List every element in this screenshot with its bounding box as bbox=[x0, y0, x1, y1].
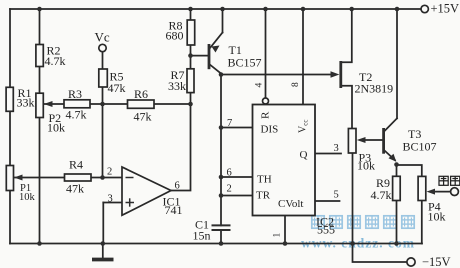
svg-text:10k: 10k bbox=[19, 192, 36, 203]
svg-text:10k: 10k bbox=[357, 159, 375, 173]
svg-text:741: 741 bbox=[165, 203, 183, 217]
svg-text:4.7k: 4.7k bbox=[45, 54, 66, 68]
svg-text:BC107: BC107 bbox=[403, 140, 437, 154]
svg-text:680: 680 bbox=[166, 29, 184, 43]
svg-text:5: 5 bbox=[334, 190, 339, 201]
svg-text:4.7k: 4.7k bbox=[66, 108, 87, 122]
svg-text:Vc: Vc bbox=[95, 30, 110, 45]
svg-text:DIS: DIS bbox=[261, 124, 279, 136]
svg-text:TR: TR bbox=[256, 190, 271, 202]
svg-text:4: 4 bbox=[255, 83, 265, 88]
svg-text:8: 8 bbox=[291, 82, 301, 87]
svg-text:2: 2 bbox=[227, 184, 232, 195]
svg-text:R3: R3 bbox=[68, 87, 82, 101]
svg-text:2N3819: 2N3819 bbox=[355, 82, 394, 96]
svg-text:+15V: +15V bbox=[431, 2, 460, 16]
svg-text:Q: Q bbox=[300, 149, 308, 161]
svg-text:47k: 47k bbox=[66, 182, 84, 196]
svg-text:CVolt: CVolt bbox=[278, 198, 303, 210]
svg-text:7: 7 bbox=[227, 118, 232, 129]
svg-text:10k: 10k bbox=[47, 121, 65, 135]
svg-text:TH: TH bbox=[257, 174, 272, 186]
svg-text:3: 3 bbox=[108, 194, 113, 205]
svg-text:555: 555 bbox=[317, 223, 335, 237]
svg-text:2: 2 bbox=[107, 167, 112, 178]
svg-text:−15V: −15V bbox=[422, 255, 451, 268]
svg-text:47k: 47k bbox=[108, 81, 126, 95]
svg-text:1: 1 bbox=[273, 233, 283, 238]
svg-text:15n: 15n bbox=[193, 229, 211, 243]
svg-text:10k: 10k bbox=[428, 210, 446, 224]
svg-text:33k: 33k bbox=[17, 96, 35, 110]
svg-text:6: 6 bbox=[227, 168, 232, 179]
svg-text:R4: R4 bbox=[69, 158, 83, 172]
svg-text:R: R bbox=[260, 111, 272, 119]
svg-text:3: 3 bbox=[334, 143, 339, 154]
svg-text:6: 6 bbox=[175, 181, 180, 192]
svg-text:4.7k: 4.7k bbox=[371, 188, 392, 202]
svg-text:BC157: BC157 bbox=[228, 56, 262, 70]
svg-text:47k: 47k bbox=[134, 110, 152, 124]
svg-text:R6: R6 bbox=[134, 87, 148, 101]
svg-text:33k: 33k bbox=[168, 79, 186, 93]
